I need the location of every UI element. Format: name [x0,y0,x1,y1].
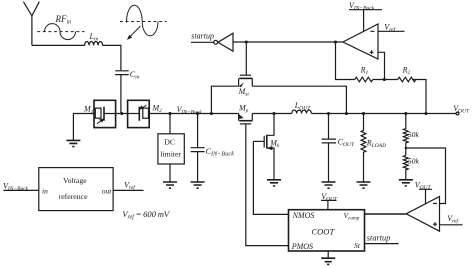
wire comparator output V_comp [365,213,407,215]
wire M2 to rail [149,113,239,115]
wire antenna to L_in [32,44,85,46]
svg-text:startup: startup [367,234,391,243]
SECTION: middle [191,32,470,265]
svg-text:Voltage: Voltage [63,176,87,185]
ground [191,182,205,188]
wire V_IN-Buck into reference [3,189,38,191]
resistor 50k upper [403,114,408,156]
node fb tap [383,78,386,81]
wire op-amp non-inverting input [378,52,385,79]
ground [322,182,336,188]
wire op-amp supply [349,10,382,31]
wire divider tap to comparator [406,148,446,204]
RF_in sine wave [45,24,76,40]
voltage reference box [39,168,113,211]
svg-text:reference: reference [59,192,89,201]
transistor M2 [128,100,150,127]
node R2 rail [424,112,427,115]
node R_LOAD tap [362,112,365,115]
wire COOT ground [327,251,329,258]
node M_k drain tap [272,112,275,115]
wire comparator supply [419,189,432,204]
wire M_st gate [245,42,247,75]
resistor 50k lower [403,155,408,179]
resistor R_LOAD [361,114,366,183]
wire to DC limiter [169,114,171,134]
wire R1 to R2 [373,79,398,81]
wire St startup [365,243,399,245]
svg-text:startup: startup [191,32,214,41]
svg-text:COOT: COOT [312,227,336,237]
wire L_OUT to V_OUT terminal [311,113,456,115]
wire feedback left leg [336,42,355,80]
node M_st gate tap [245,40,248,43]
wire startup into inverter [191,41,214,43]
coupled RF sine wave [126,5,158,36]
wire R2 down to rail [412,80,426,114]
SECTION: right [322,1,463,231]
svg-text:PMOS: PMOS [291,242,313,251]
ground [163,182,177,188]
dashed axis small sine [37,31,84,33]
inductor L_in [85,42,103,46]
ground [399,180,413,186]
wire comparator + input V_ref [440,224,463,226]
node DC limiter tap [168,112,171,115]
inverter bubble [214,40,218,44]
transistor M1 [94,100,116,127]
svg-text:DC: DC [164,138,175,147]
svg-text:out: out [102,187,113,196]
svg-text:limiter: limiter [160,149,181,158]
inverter triangle [218,33,233,51]
wire M_p gate to COOT PMOS [246,124,289,246]
wire op-amp inverting input V_ref [378,30,405,32]
svg-text:NMOS: NMOS [292,211,315,220]
SECTION: input stage [3,2,239,221]
node op-amp fb tap [334,40,337,43]
svg-text:St: St [354,241,361,250]
wire reference out V_ref [113,189,143,191]
svg-text:50k: 50k [408,130,420,139]
node M_st branch tap [210,112,213,115]
wire V_OUT into COOT [321,200,337,209]
wire DC limiter to ground [169,164,171,182]
dashed axis large sine [120,21,167,23]
inductor L_OUT [292,110,312,113]
terminal V_OUT [456,112,459,115]
resistor R1 [355,77,373,82]
svg-text:50k: 50k [408,156,420,165]
ground [321,258,335,264]
wire M1 gate to ground [73,114,95,141]
node C_IN-Buck tap [196,112,199,115]
ground [357,182,371,188]
COOT box [289,210,365,251]
node M_st rail join [345,112,348,115]
node junction M1-M2 [120,112,123,115]
op-amp U1 [343,24,378,59]
wire M_p to L_OUT [252,113,291,115]
wire M1 to M2 [116,113,128,115]
capacitor C_IN-Buck [191,114,205,183]
resistor R2 [398,77,416,82]
DC limiter box [158,134,184,164]
node 50k tap [404,112,407,115]
wire M_st to Vout rail [252,86,346,113]
transistor M_k [253,114,274,180]
wire M_st branch up [211,86,238,113]
transistor M_st [239,75,253,87]
wire inverter output to op-amp output [233,41,343,43]
capacitor C_OUT [322,114,337,183]
node divider tap [405,147,407,149]
node C_OUT tap [327,112,330,115]
comparator U2 [406,197,439,232]
wire L_in to corner down [103,45,121,70]
transistor M_p [239,114,253,124]
capacitor C_in [115,71,129,114]
ground [66,140,80,146]
arrow to wire [130,26,141,37]
wire M_k gate to COOT NMOS [253,141,288,214]
svg-text:in: in [42,187,48,196]
ground [267,180,281,186]
antenna [23,2,39,46]
